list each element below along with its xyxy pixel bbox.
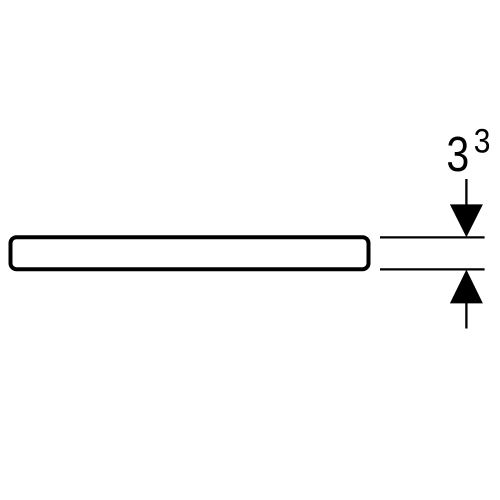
arrowhead down — [450, 204, 483, 237]
extension line top — [380, 236, 485, 238]
dimension leader line lower — [465, 298, 467, 329]
dimension superscript 3 — [474, 121, 491, 159]
arrowhead up — [450, 270, 483, 304]
slab (side view of shelf panel) — [11, 237, 369, 269]
svg-text:3: 3 — [474, 121, 491, 159]
dimension leader line upper — [465, 179, 467, 210]
dimension text 3 — [446, 127, 469, 182]
extension line bottom — [380, 268, 485, 270]
svg-text:3: 3 — [446, 127, 469, 182]
